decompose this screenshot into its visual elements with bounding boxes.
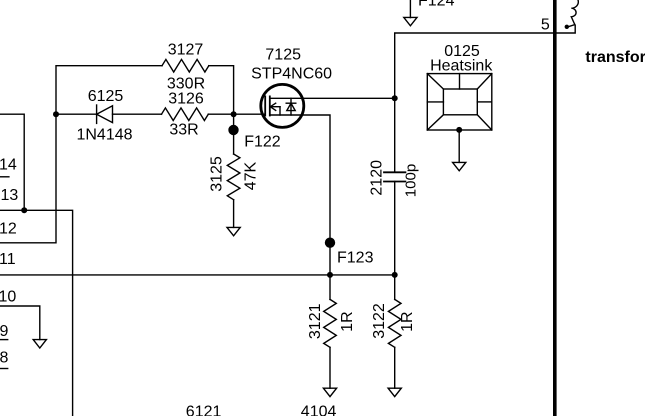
wire R3121 bottom lead bbox=[329, 347, 331, 388]
svg-text:F122: F122 bbox=[244, 134, 281, 151]
node heatsink terminal dot bbox=[456, 127, 462, 133]
svg-text:100p: 100p bbox=[403, 164, 420, 197]
svg-text:5: 5 bbox=[541, 17, 550, 34]
node winding polarity dot bbox=[565, 25, 569, 29]
svg-text:F124: F124 bbox=[418, 0, 455, 10]
mosfet gate bar bbox=[264, 96, 266, 115]
svg-text:3121: 3121 bbox=[307, 303, 324, 339]
node junction dot gate node bbox=[231, 111, 237, 117]
svg-text:6121: 6121 bbox=[186, 403, 222, 416]
capacitor C2120 100p plates bbox=[384, 172, 405, 181]
resistor R3126 33R zigzag bbox=[162, 108, 209, 121]
node junction dot on pin13 lead bbox=[21, 207, 27, 213]
wire pin13 lead to vertical down to bottom edge bbox=[0, 210, 73, 416]
wire R3122 top lead bbox=[394, 275, 396, 300]
node F122 test point dot bbox=[228, 125, 238, 135]
mosfet body diode bbox=[286, 98, 296, 115]
svg-text:3126: 3126 bbox=[168, 91, 204, 108]
svg-text:10: 10 bbox=[0, 289, 16, 306]
wire diode left lead bbox=[56, 113, 97, 115]
wire R3127 right lead down to gate node bbox=[209, 66, 234, 115]
svg-text:9: 9 bbox=[0, 323, 9, 340]
wire pin10 lead bbox=[0, 306, 40, 340]
svg-text:3125: 3125 bbox=[208, 156, 225, 192]
ground arrow below R3125 bbox=[227, 227, 240, 235]
transistor Q7125 STP4NC60 mosfet body bbox=[261, 84, 304, 127]
svg-text:7125: 7125 bbox=[265, 46, 301, 63]
svg-text:12: 12 bbox=[0, 221, 17, 238]
svg-text:47K: 47K bbox=[242, 161, 259, 190]
svg-text:14: 14 bbox=[0, 156, 17, 173]
wire top middle ground lead bbox=[409, 0, 411, 18]
wire mosfet drain line to junction bbox=[270, 97, 395, 99]
wire mosfet source line down to F123 bbox=[270, 115, 330, 275]
svg-text:transform: transform bbox=[585, 49, 645, 66]
resistor R3121 1R vertical zigzag bbox=[324, 299, 337, 347]
wire winding hook to polarity dot bbox=[568, 25, 575, 27]
node junction dot at diode/left vertical bbox=[53, 111, 59, 117]
ground arrow below pin10 bbox=[33, 340, 46, 348]
wire diode right lead bbox=[113, 113, 162, 115]
svg-text:8: 8 bbox=[0, 349, 9, 366]
wire pin9 stub bbox=[0, 339, 8, 341]
svg-text:1R: 1R bbox=[399, 311, 416, 331]
wire pin14 stub bbox=[0, 176, 9, 178]
svg-text:1N4148: 1N4148 bbox=[76, 126, 132, 143]
diode 6125 1N4148 bbox=[97, 105, 113, 123]
svg-text:6125: 6125 bbox=[88, 88, 124, 105]
svg-text:Heatsink: Heatsink bbox=[430, 58, 493, 75]
node F123 test point dot bbox=[325, 238, 335, 248]
wire drain node up and right to transformer pin 5 bbox=[395, 25, 576, 172]
svg-text:33R: 33R bbox=[169, 122, 198, 139]
ground arrow below R3121 bbox=[323, 388, 336, 396]
svg-text:F123: F123 bbox=[337, 249, 374, 266]
resistor R3127 330R zigzag bbox=[162, 59, 209, 72]
transformer winding coil bbox=[571, 0, 578, 25]
svg-text:1R: 1R bbox=[339, 311, 356, 331]
svg-text:2120: 2120 bbox=[369, 160, 386, 196]
ground arrow below R3122 bbox=[388, 388, 401, 396]
wire F122 vertical down to R3125 bbox=[233, 114, 235, 154]
wire cap bottom lead bbox=[394, 182, 396, 275]
wire thick bus line transformer screen bbox=[553, 0, 557, 416]
ground arrow top middle bbox=[404, 17, 417, 25]
wire corner from left edge down to pin13 lead bbox=[0, 114, 24, 210]
mosfet substrate arrow bbox=[270, 103, 280, 115]
wire R3125 bottom lead bbox=[233, 200, 235, 228]
wire left vertical with R3127 top lead and pin12 lead bbox=[0, 66, 162, 243]
heatsink 0125 outline bbox=[427, 74, 492, 130]
wire R3121 top lead bbox=[329, 275, 331, 300]
svg-text:13: 13 bbox=[1, 187, 19, 204]
resistor R3122 1R vertical zigzag bbox=[388, 299, 401, 347]
svg-text:3122: 3122 bbox=[371, 303, 388, 339]
node junction dot at R3121 top bbox=[327, 272, 333, 278]
node junction dot drain bbox=[392, 95, 398, 101]
ground arrow below heatsink bbox=[453, 162, 466, 170]
mosfet channel bar bbox=[269, 96, 271, 115]
wire pin11 lead long horizontal bbox=[0, 274, 395, 276]
svg-text:11: 11 bbox=[0, 251, 16, 268]
svg-text:4104: 4104 bbox=[301, 403, 337, 416]
wire gate lead into mosfet bbox=[234, 113, 266, 115]
svg-text:3127: 3127 bbox=[168, 42, 204, 59]
wire R3122 bottom lead bbox=[394, 347, 396, 388]
wire R3126 right lead bbox=[208, 113, 233, 115]
wire heatsink ground lead bbox=[458, 130, 460, 162]
svg-text:STP4NC60: STP4NC60 bbox=[251, 65, 332, 82]
node junction dot at R3122 top bbox=[392, 272, 398, 278]
wire pin8 stub bbox=[0, 368, 8, 370]
resistor R3125 47K vertical zigzag bbox=[227, 154, 240, 200]
